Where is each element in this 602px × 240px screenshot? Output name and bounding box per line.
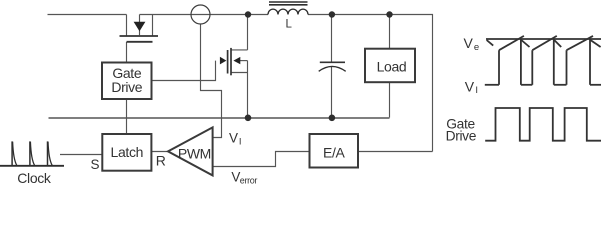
svg-text:Clock: Clock: [17, 170, 52, 184]
svg-text:V: V: [229, 131, 238, 146]
svg-text:I: I: [475, 85, 477, 96]
svg-text:E/A: E/A: [323, 144, 346, 160]
svg-text:R: R: [156, 152, 166, 168]
svg-text:PWM: PWM: [178, 145, 211, 161]
svg-text:V: V: [465, 79, 475, 95]
svg-text:Drive: Drive: [111, 79, 142, 95]
svg-text:Load: Load: [377, 59, 407, 75]
svg-text:V: V: [464, 35, 474, 51]
svg-text:error: error: [240, 175, 258, 184]
svg-text:Drive: Drive: [446, 129, 477, 144]
svg-text:Latch: Latch: [111, 144, 144, 160]
svg-text:L: L: [285, 19, 292, 31]
svg-text:I: I: [239, 136, 241, 147]
svg-text:S: S: [91, 157, 100, 172]
svg-text:e: e: [474, 42, 479, 53]
